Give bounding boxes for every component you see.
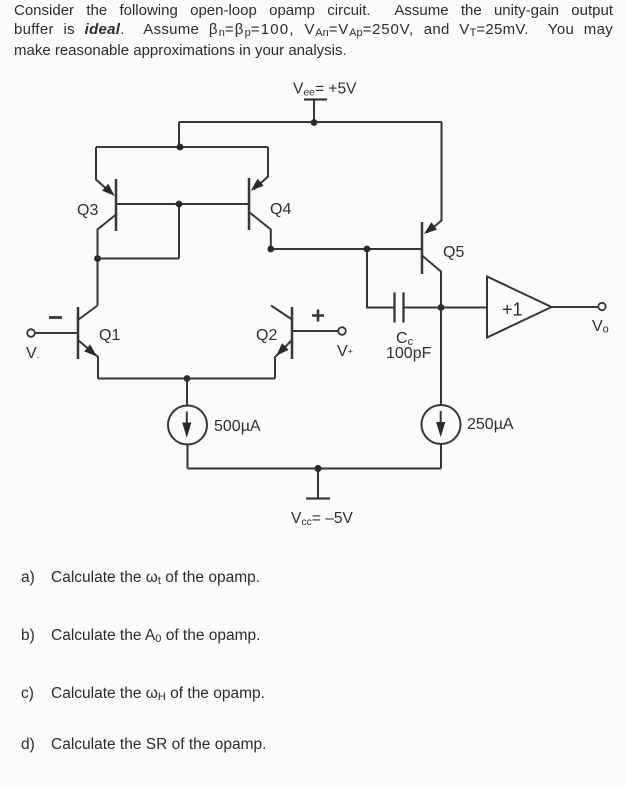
svg-text:Vcc= –5V: Vcc= –5V xyxy=(291,510,353,528)
svg-text:Q1: Q1 xyxy=(99,327,120,344)
svg-text:V+: V+ xyxy=(337,343,353,360)
svg-text:Q4: Q4 xyxy=(270,201,291,218)
svg-text:Cc: Cc xyxy=(396,330,414,348)
svg-text:V.: V. xyxy=(26,345,39,362)
svg-text:+1: +1 xyxy=(502,300,523,320)
svg-text:Q5: Q5 xyxy=(443,244,464,261)
svg-text:Q3: Q3 xyxy=(77,202,98,219)
svg-text:Q2: Q2 xyxy=(256,327,277,344)
svg-text:Vee= +5V: Vee= +5V xyxy=(293,81,357,99)
svg-text:Vo: Vo xyxy=(592,318,609,336)
svg-text:250µA: 250µA xyxy=(467,416,514,433)
svg-text:500µA: 500µA xyxy=(214,418,261,435)
